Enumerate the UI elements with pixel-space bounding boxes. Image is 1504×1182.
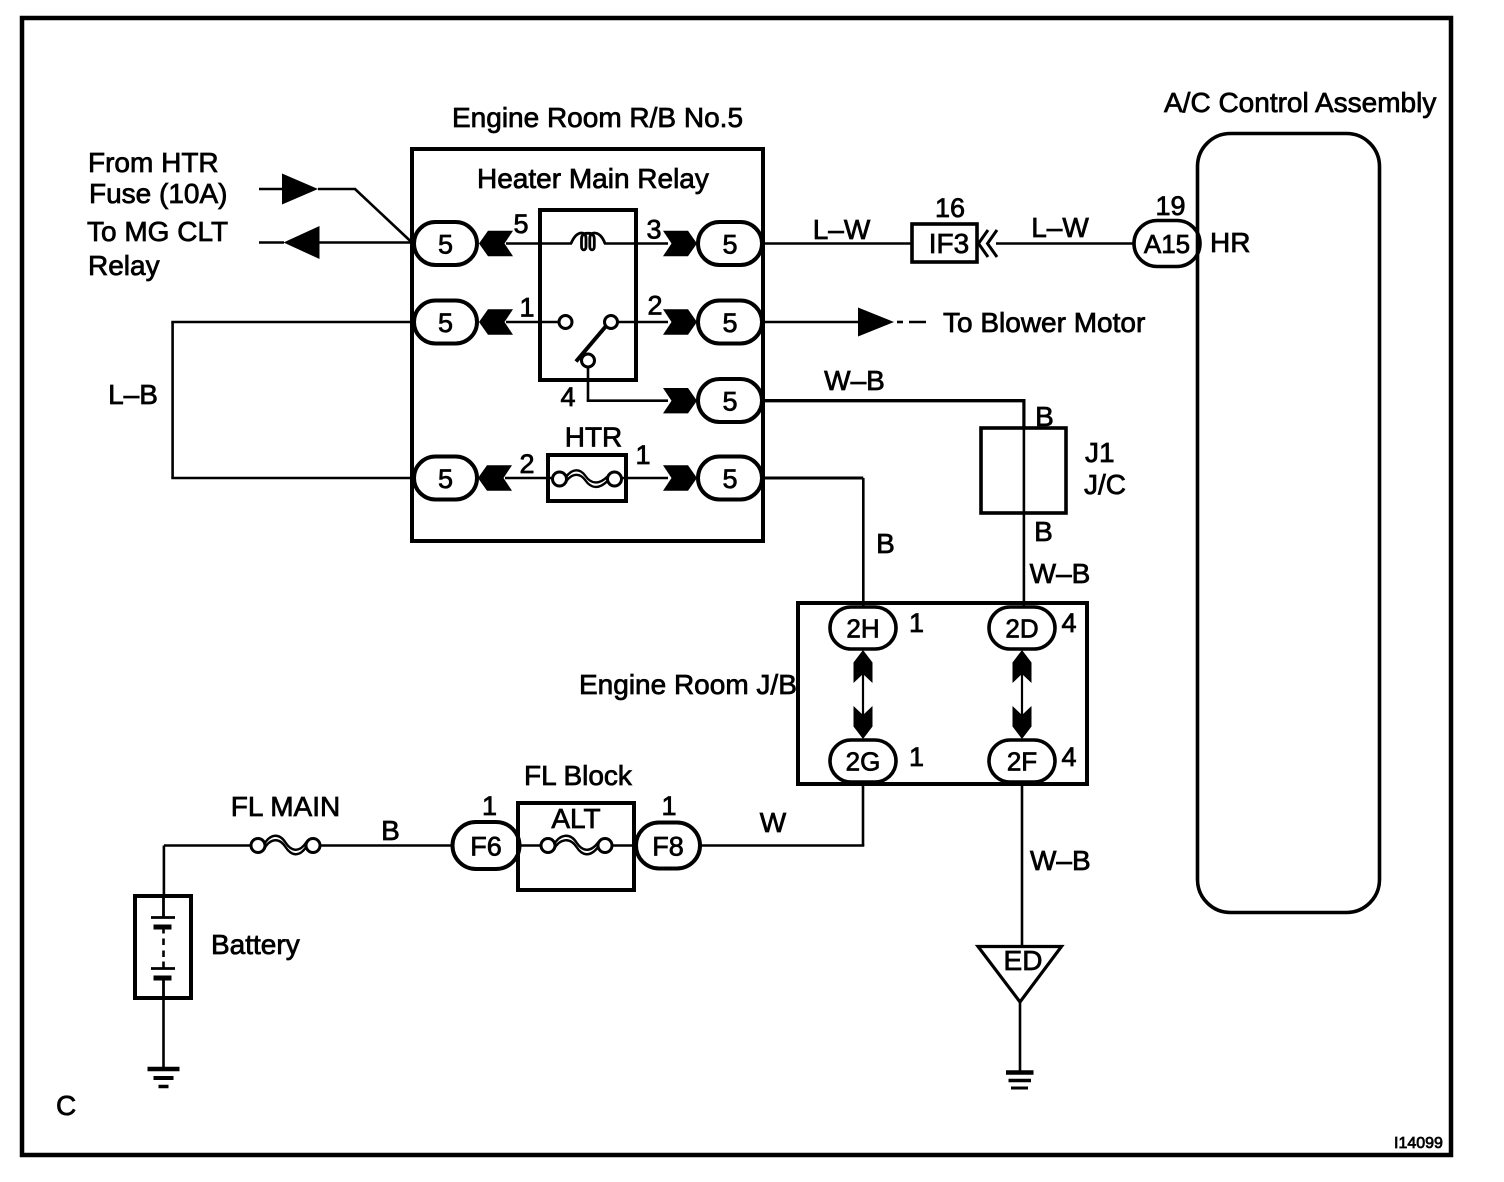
relay switch contact left	[559, 316, 572, 329]
arrow: fat up arrow 2H	[854, 650, 873, 683]
connector 5 (row1 right)	[698, 222, 762, 265]
svg-text:L–W: L–W	[1031, 212, 1089, 243]
wire: L-W to IF3	[762, 242, 913, 245]
svg-text:1: 1	[661, 791, 676, 821]
svg-text:4: 4	[1061, 742, 1076, 772]
svg-text:Engine Room R/B No.5: Engine Room R/B No.5	[452, 102, 743, 133]
wire: relay coil left lead	[506, 242, 572, 245]
svg-text:F8: F8	[652, 832, 684, 862]
svg-text:2G: 2G	[846, 747, 881, 777]
fuse HTR element	[553, 472, 567, 486]
wire: through J/C	[1023, 428, 1026, 513]
svg-text:1: 1	[909, 742, 924, 772]
arrow into connector 5 row4 left	[478, 465, 512, 490]
connector 5 (row4 left)	[414, 457, 477, 500]
relay coil	[571, 233, 605, 250]
arrow: to blower motor	[858, 308, 894, 337]
wire: B from row4 to 2H	[762, 477, 863, 480]
arrow into connector 5 row1 left	[479, 231, 513, 256]
svg-text:5: 5	[438, 464, 453, 494]
wire: F6 to ALT link	[519, 844, 542, 846]
arrow: from HTR fuse (points right)	[282, 174, 318, 205]
connector chevrons at IF3	[979, 230, 998, 257]
wire: to blower motor	[762, 321, 860, 324]
svg-text:W: W	[760, 807, 787, 838]
wire: battery to ground	[162, 997, 165, 1069]
svg-text:J/C: J/C	[1084, 469, 1126, 500]
svg-text:From HTR: From HTR	[88, 147, 219, 178]
svg-text:C: C	[56, 1090, 76, 1121]
battery box	[135, 896, 191, 998]
battery internals	[162, 898, 165, 917]
wire: from HTR fuse lead	[259, 188, 290, 191]
svg-text:HR: HR	[1210, 227, 1250, 258]
connector 5 (row4 right)	[698, 457, 762, 500]
connector 2D	[989, 607, 1055, 649]
svg-text:W–B: W–B	[824, 365, 885, 396]
svg-text:2: 2	[647, 291, 662, 321]
svg-text:2D: 2D	[1005, 614, 1038, 644]
wire: internal link 2D-2F	[1021, 655, 1023, 735]
wire: ED to ground	[1019, 1002, 1022, 1072]
svg-text:IF3: IF3	[929, 228, 969, 259]
svg-text:5: 5	[722, 308, 737, 338]
arrow into connector 5 row3 right	[663, 388, 697, 413]
wire: HTR fuse left lead	[505, 477, 552, 480]
relay: Heater Main Relay body box	[540, 210, 636, 380]
ground point ED triangle	[978, 947, 1062, 1003]
svg-text:2F: 2F	[1007, 747, 1037, 777]
component: A/C Control Assembly body	[1198, 134, 1380, 913]
svg-text:Fuse (10A): Fuse (10A)	[89, 178, 228, 209]
wire: switch common lead	[506, 321, 559, 324]
wire: L-B loop vertical	[171, 322, 174, 478]
relay switch arm	[576, 319, 612, 362]
svg-text:Battery: Battery	[211, 929, 300, 960]
connector 2F	[989, 740, 1055, 782]
svg-text:L–B: L–B	[108, 379, 158, 410]
wire: relay coil right lead	[604, 242, 668, 245]
arrow into connector 5 row2 right	[663, 309, 697, 334]
svg-text:B: B	[876, 528, 895, 559]
arrow into connector 5 row2 left	[479, 309, 513, 334]
wire: 2G down to W wire	[862, 782, 865, 846]
connector F6	[453, 822, 520, 869]
ground symbol (ED)	[1006, 1070, 1034, 1075]
svg-text:Heater Main Relay: Heater Main Relay	[477, 163, 709, 194]
svg-text:5: 5	[722, 230, 737, 260]
wire: vertical down to 2H	[862, 478, 865, 608]
fusible link ALT	[541, 839, 555, 853]
svg-text:5: 5	[438, 230, 453, 260]
wire: battery riser	[163, 846, 166, 899]
relay switch contact bottom (pin 4)	[582, 354, 595, 367]
svg-text:W–B: W–B	[1030, 845, 1091, 876]
arrow: to MG CLT relay (points left)	[284, 226, 320, 259]
svg-text:B: B	[381, 815, 400, 846]
svg-text:HTR: HTR	[565, 422, 623, 453]
svg-text:2: 2	[519, 449, 534, 479]
connector 2H	[830, 607, 896, 649]
wire: pin 4 horizontal	[587, 399, 668, 402]
wire: pin 4 vertical	[587, 367, 590, 401]
svg-text:1: 1	[482, 791, 497, 821]
wire: stub after blower arrow	[897, 321, 903, 324]
wire: to MG CLT relay lead	[259, 241, 284, 244]
arrow into connector 5 row4 right	[663, 465, 697, 490]
wire: battery to FL MAIN	[164, 844, 252, 847]
svg-text:To Blower Motor: To Blower Motor	[943, 307, 1145, 338]
svg-text:3: 3	[646, 215, 661, 245]
svg-text:FL MAIN: FL MAIN	[231, 791, 340, 822]
junction connector J1 J/C box	[981, 428, 1066, 513]
connector 5 (row3 right)	[698, 379, 762, 422]
relay switch contact right	[605, 316, 618, 329]
svg-text:19: 19	[1155, 191, 1185, 221]
svg-text:L–W: L–W	[813, 214, 871, 245]
svg-text:A/C Control Assembly: A/C Control Assembly	[1164, 87, 1436, 118]
wire: vertical into J/C box	[1022, 399, 1025, 430]
svg-text:To MG CLT: To MG CLT	[87, 216, 228, 247]
fusible link FL MAIN	[251, 839, 265, 853]
svg-text:FL Block: FL Block	[524, 760, 633, 791]
svg-text:Engine Room J/B: Engine Room J/B	[579, 669, 797, 700]
arrow into connector 5 row1 right	[663, 231, 697, 256]
arrow: fat down arrow 2F	[1013, 706, 1032, 739]
svg-text:Relay: Relay	[88, 250, 160, 281]
connector 5 (row2 left)	[414, 301, 477, 344]
wire: W-B from row3 to J/C	[762, 399, 1024, 402]
svg-text:F6: F6	[470, 832, 502, 862]
svg-text:5: 5	[438, 308, 453, 338]
fusible link block box	[518, 803, 634, 890]
wire: W from F8 to 2G	[700, 844, 864, 847]
svg-text:1: 1	[519, 293, 534, 323]
svg-text:16: 16	[935, 193, 965, 223]
svg-text:5: 5	[513, 209, 528, 239]
wire: internal link 2H-2G	[862, 655, 864, 735]
ground symbol (battery)	[148, 1067, 180, 1072]
wire: L-W from IF3 to A15	[996, 242, 1136, 245]
svg-text:4: 4	[560, 382, 575, 412]
svg-text:A15: A15	[1144, 229, 1190, 259]
wire: MG CLT arrow to connector 5 row1	[312, 241, 414, 244]
svg-text:4: 4	[1061, 608, 1076, 638]
wire: pin 2 lead	[617, 321, 668, 324]
wire: 2F down to ED	[1021, 782, 1024, 947]
wire: L-B loop horizontal row2	[171, 321, 414, 324]
junction block: Engine Room J/B box	[798, 603, 1087, 784]
wire: ALT link to F8	[612, 844, 638, 846]
svg-text:1: 1	[635, 440, 650, 470]
wire: L-B loop horizontal row4	[171, 477, 414, 480]
svg-text:5: 5	[722, 464, 737, 494]
connector F8	[636, 823, 700, 869]
connector 5 (row2 right)	[698, 301, 762, 344]
svg-text:2H: 2H	[846, 614, 879, 644]
wire: B from FL MAIN to F6	[320, 844, 455, 847]
connector 2G	[830, 740, 896, 782]
svg-text:B: B	[1034, 516, 1053, 547]
svg-text:W–B: W–B	[1030, 558, 1091, 589]
arrow: fat down arrow 2G	[854, 706, 873, 739]
svg-text:ALT: ALT	[551, 803, 600, 834]
svg-text:1: 1	[909, 608, 924, 638]
svg-text:J1: J1	[1085, 437, 1115, 468]
wire: diagonal down to pin 5 node	[355, 189, 413, 244]
wire: HTR fuse right lead	[621, 477, 668, 480]
junction block: Engine Room R/B No.5 box	[412, 149, 763, 541]
svg-text:ED: ED	[1004, 945, 1043, 976]
arrow: fat up arrow 2D	[1013, 650, 1032, 683]
connector 5 (row1 left)	[414, 222, 477, 265]
wire: arrow to diagonal	[318, 188, 356, 191]
connector IF3	[912, 224, 977, 262]
svg-text:5: 5	[722, 387, 737, 417]
svg-text:I14099: I14099	[1394, 1135, 1443, 1152]
fuse HTR box	[548, 455, 626, 501]
wire: J/C down to 2D	[1023, 513, 1026, 608]
connector A15	[1134, 221, 1200, 267]
